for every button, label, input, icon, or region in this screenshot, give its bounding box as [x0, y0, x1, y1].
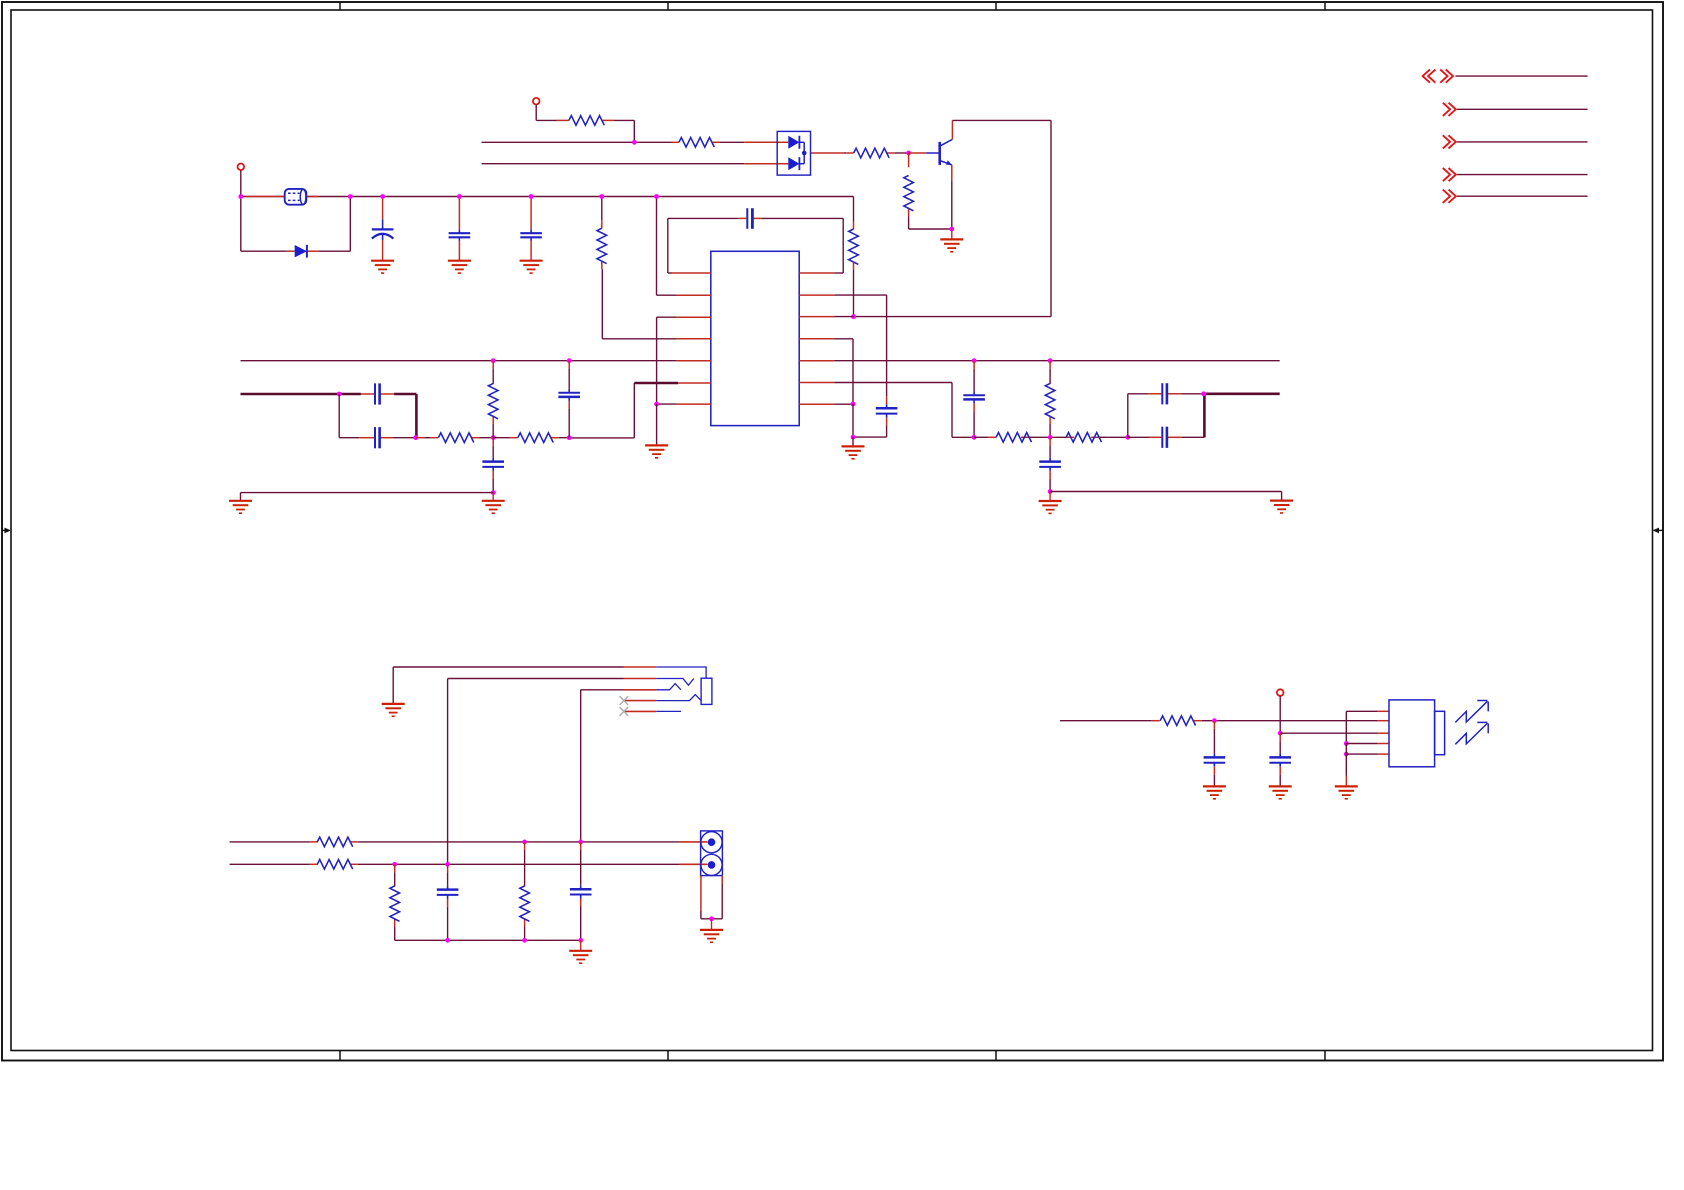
node bus A junction R16: [522, 840, 527, 845]
node bus B junction R15: [392, 862, 397, 867]
resistor R2: [679, 138, 714, 148]
ground jack sleeve: [382, 703, 405, 705]
wire bus B to connector: [680, 863, 708, 865]
node R10 bottom junction: [1048, 435, 1053, 440]
capacitor C4 leads: [739, 217, 747, 219]
node bottom bus junction 3: [578, 938, 583, 943]
resistor R8 leads: [416, 437, 425, 439]
capacitor C5 leads: [886, 396, 888, 404]
jack J1 contact 1: [656, 667, 706, 678]
resistor R15 leads: [394, 864, 396, 872]
node A junction: [851, 314, 856, 319]
node base junction: [906, 151, 911, 156]
wire parallel cap link right: [1127, 394, 1129, 438]
node rail junction 7: [654, 194, 659, 199]
resistor R9 leads: [493, 437, 510, 439]
op-amp U1 pin 1 lead: [672, 272, 711, 274]
resistor R4: [904, 175, 914, 210]
node rail junction 1: [238, 194, 243, 199]
node bottom bus junction 1: [445, 938, 450, 943]
capacitor C14 leads: [447, 864, 449, 872]
resistor R10: [1045, 383, 1055, 418]
capacitor C3: [520, 232, 542, 234]
ground headphone bottom: [580, 940, 582, 951]
fuse F1: [285, 189, 307, 205]
wire pin7 to ground junction: [657, 403, 677, 405]
jack J1 contact 4 switch: [656, 695, 701, 701]
transistor Q1: [926, 152, 939, 154]
border zone tick bottom 2: [667, 1051, 669, 1061]
port P2 output symbol: [1443, 103, 1456, 116]
wire pin13 to output network: [834, 382, 952, 384]
IR receiver U3 body: [1389, 700, 1435, 767]
diode D1: [295, 245, 307, 257]
wire pin2 to rail: [656, 197, 658, 296]
IR receiver U3 lens: [1435, 711, 1445, 754]
dual diode U2 common cathode link: [799, 141, 804, 143]
wire pin6 thick net: [634, 382, 678, 385]
wire T3 stem: [1279, 696, 1281, 733]
op-amp U1 pin 4 lead: [677, 338, 711, 340]
wire pin14 to ground junction: [834, 403, 853, 405]
ground below Q1 emitter: [951, 229, 953, 239]
node rail junction 4: [457, 194, 462, 199]
wire C1 branch: [382, 197, 384, 220]
node rail junction R10: [1048, 358, 1053, 363]
wire left ground bus: [241, 492, 494, 494]
port P5 output symbol: [1443, 190, 1456, 203]
resistor R12 leads: [1066, 436, 1074, 438]
capacitor C11 leads: [1148, 393, 1161, 395]
wire T1 to rail: [240, 170, 242, 196]
ground below right junction: [852, 437, 854, 446]
capacitor C17: [1269, 756, 1291, 759]
wire R4 to emitter node: [908, 217, 910, 230]
wire R3 to base node: [895, 152, 909, 154]
wire headphone bus B: [230, 863, 310, 865]
capacitor C17 leads: [1279, 733, 1281, 741]
op-amp U1 pin 2 lead: [677, 294, 711, 296]
node thick junction right: [1201, 391, 1206, 396]
resistor R11 leads: [988, 436, 996, 438]
resistor R1 leads: [557, 119, 569, 121]
wire port P5 net: [1457, 195, 1588, 197]
wire audio rail right: [834, 360, 1279, 362]
resistor R3: [854, 148, 889, 158]
wire Q1 emitter lead: [951, 165, 953, 180]
ground below C13: [1049, 492, 1051, 502]
node left network junction 2: [491, 435, 496, 440]
node IR gnd junction 2: [1344, 752, 1349, 757]
resistor R3 leads: [846, 152, 854, 154]
wire pin9 to C5: [834, 294, 886, 296]
capacitor C15: [570, 888, 592, 891]
capacitor C7: [374, 427, 376, 448]
wire pin3 to ground net: [657, 316, 677, 318]
node IR gnd junction 1: [1344, 741, 1349, 746]
op-amp U1 pin 7 lead: [677, 403, 711, 405]
op-amp U1 pin 3 lead: [677, 316, 711, 318]
connector J2 shield legs: [700, 876, 702, 911]
wire input line 1: [482, 141, 672, 143]
wire right ground link: [852, 404, 854, 437]
dual diode U2 diode A: [788, 136, 799, 149]
IR receiver U3 pin leads: [1377, 710, 1389, 712]
wire collector loop: [952, 119, 1051, 121]
resistor R17: [1160, 716, 1195, 726]
resistor R9: [518, 433, 553, 443]
port P1 bidirectional symbol: [1423, 70, 1453, 83]
ground below pin7: [656, 404, 658, 445]
no-connect X pin4: [620, 696, 629, 705]
op-amp U1 pin 6 lead: [678, 382, 711, 384]
resistor R13: [317, 837, 352, 847]
jack J1 pin 2 lead: [624, 678, 656, 680]
jack J1 contact 3 switch: [656, 684, 681, 690]
no-connect X pin5: [620, 707, 629, 716]
resistor R7: [488, 383, 498, 418]
node emitter junction: [949, 227, 954, 232]
border centre arrow left: [2, 529, 8, 531]
node rail junction 5: [529, 194, 534, 199]
jack J1 contact 2 switch: [656, 679, 694, 686]
resistor R5: [849, 229, 859, 264]
wire rail corner down to R5: [853, 197, 855, 222]
capacitor C13 leads: [1049, 437, 1051, 445]
node pin7 ground junction: [654, 402, 659, 407]
resistor R14 leads: [310, 863, 318, 865]
wire R5 to node A: [853, 262, 855, 270]
wire R1 to input line 1: [614, 119, 634, 121]
ground left bus end: [229, 500, 252, 502]
op-amp U1 pin 9 lead: [799, 294, 834, 296]
resistor R16 leads: [524, 842, 526, 850]
wire port P2 net: [1457, 108, 1588, 110]
wire IR pin5 link: [1346, 753, 1377, 755]
port P4 output symbol: [1443, 168, 1456, 181]
resistor R10 leads: [1049, 361, 1051, 369]
node rail junction 2: [348, 194, 353, 199]
wire base lead: [909, 152, 927, 154]
border zone tick top 1: [339, 2, 341, 10]
wire IR power line: [1280, 732, 1377, 734]
wire pin4 to R6: [602, 338, 676, 340]
resistor R4 pulldown leads: [908, 153, 910, 167]
capacitor C16 leads: [1213, 721, 1215, 729]
op-amp U1 pin 12 lead: [799, 360, 834, 362]
capacitor C16: [1204, 756, 1226, 759]
node left network junction 3: [567, 435, 572, 440]
capacitor C6 leads: [361, 393, 374, 395]
wire C2 branch: [458, 197, 460, 230]
ground right bus end: [1270, 500, 1293, 502]
node rail junction 6: [599, 194, 604, 199]
wire right speaker thick: [1203, 394, 1206, 438]
wire input line 2: [482, 163, 745, 165]
wire pin10 to node A: [834, 316, 853, 318]
node rail junction R7: [491, 358, 496, 363]
wire headphone bottom bus: [395, 939, 581, 941]
capacitor C5: [876, 407, 898, 410]
capacitor C11: [1161, 383, 1163, 404]
wire right network bus: [974, 436, 988, 438]
wire diode branch: [240, 197, 242, 252]
jack J1 pin 1 lead: [624, 666, 656, 668]
jack J1 body: [701, 678, 712, 704]
terminal T2 mute input: [533, 98, 540, 105]
wire audio rail left: [241, 360, 677, 362]
capacitor C14: [437, 888, 459, 891]
dual diode U2 box: [777, 131, 810, 175]
wire headphone bus A: [230, 841, 310, 843]
resistor R14: [317, 860, 352, 870]
node bus A junction C15: [578, 840, 583, 845]
node IR signal junction: [1212, 718, 1217, 723]
fuse F1 leads: [246, 196, 285, 198]
wire jack tip branch: [448, 678, 624, 680]
ground below C9: [492, 493, 494, 501]
wire Q1 collector lead: [951, 120, 953, 139]
wire port P1 net: [1455, 75, 1587, 77]
capacitor C4: [746, 208, 748, 229]
capacitor C6: [374, 383, 376, 404]
connector J2 box: [701, 831, 723, 876]
op-amp U1 pin 8 lead: [799, 272, 834, 274]
wire port P3 net: [1457, 141, 1588, 143]
border zone tick top 4: [1324, 2, 1326, 10]
wire jack ring branch: [581, 689, 624, 691]
resistor R13 leads: [310, 841, 318, 843]
ground connector: [711, 919, 713, 930]
ground below C1: [371, 260, 394, 262]
wire T2 stem: [535, 105, 537, 121]
node right ground junction 2: [851, 435, 856, 440]
capacitor C8 leads: [568, 361, 570, 369]
resistor R17 leads: [1152, 720, 1160, 722]
connector J2 pin 2: [701, 854, 722, 875]
resistor R1: [569, 116, 604, 126]
capacitor C2: [449, 232, 471, 234]
resistor R2 leads: [672, 141, 679, 143]
node rail junction C10: [972, 358, 977, 363]
node right ground bus junction: [1048, 489, 1053, 494]
border zone tick bottom 4: [1324, 1051, 1326, 1061]
resistor R12: [1066, 433, 1101, 443]
node left ground bus junction: [491, 490, 496, 495]
border zone tick top 3: [995, 2, 997, 10]
capacitor C12 leads: [1149, 436, 1161, 438]
border zone tick top 2: [667, 2, 669, 10]
jack J1 pin 4 lead: [624, 700, 656, 702]
wire feedback loop: [668, 217, 739, 219]
capacitor C12: [1161, 427, 1163, 448]
node input junction: [632, 140, 637, 145]
capacitor C15 leads: [580, 842, 582, 850]
capacitor C10 leads: [973, 361, 975, 369]
wire pin11 down: [834, 338, 853, 340]
border zone tick bottom 3: [995, 1051, 997, 1061]
op-amp U1 pin 10 lead: [799, 316, 834, 318]
resistor R15: [390, 886, 400, 921]
capacitor C13: [1039, 460, 1061, 463]
node bottom bus junction 2: [522, 938, 527, 943]
resistor R8: [438, 433, 473, 443]
ground below C2: [448, 260, 471, 262]
capacitor C8: [558, 392, 580, 394]
jack J1 pin 5 lead: [624, 710, 656, 712]
ground IR receiver: [1345, 776, 1347, 787]
wire port P4 net: [1457, 174, 1588, 176]
ground below C3: [520, 260, 543, 262]
node C10 bottom junction: [972, 435, 977, 440]
IR arrow 1: [1455, 701, 1487, 722]
ground below C16: [1203, 785, 1226, 787]
op-amp U1 pin 11 lead: [799, 338, 834, 340]
IR arrow 2: [1455, 723, 1487, 744]
resistor R16: [520, 886, 530, 921]
connector J2 pin 1: [701, 832, 722, 853]
wire IR signal: [1060, 720, 1152, 722]
node left network junction 1: [413, 435, 418, 440]
capacitor C7 leads: [359, 437, 374, 439]
op-amp U1 pin 5 lead: [677, 360, 711, 362]
node rail junction C8: [567, 358, 572, 363]
diode D1 leads: [287, 250, 295, 252]
wire right ground bus: [1050, 491, 1282, 493]
dual diode U2 diode B: [788, 157, 799, 170]
port P3 output symbol: [1443, 135, 1456, 148]
capacitor C9 leads: [492, 438, 494, 446]
wire IR pin1 loop: [1346, 710, 1377, 712]
wire left speaker thick: [241, 393, 361, 396]
wire jack sleeve to ground: [393, 666, 624, 668]
node right ground junction 1: [851, 402, 856, 407]
dual diode U2 pin leads: [744, 141, 788, 143]
wire IR pin4 link: [1346, 743, 1377, 745]
resistor R7 leads: [492, 361, 494, 369]
capacitor C1 electrolytic: [372, 228, 394, 230]
wire C3 branch: [530, 197, 532, 230]
ground below C17: [1269, 785, 1292, 787]
node right network junction: [1125, 435, 1130, 440]
resistor R11: [996, 433, 1031, 443]
resistor R6 leads: [601, 197, 603, 221]
wire bus A to connector: [680, 841, 708, 843]
terminal T3 IR power: [1277, 689, 1284, 696]
node connector ground junction: [709, 916, 714, 921]
wire U2 to R3: [844, 152, 846, 154]
jack J1 contact 5: [656, 710, 681, 712]
border zone tick bottom 1: [339, 1051, 341, 1061]
capacitor C9: [482, 460, 504, 463]
wire parallel cap link: [338, 394, 340, 438]
node IR power junction: [1278, 731, 1283, 736]
op-amp U1 pin 14 lead: [799, 403, 834, 405]
op-amp U1 pin 13 lead: [799, 382, 834, 384]
terminal T1 power input: [238, 164, 245, 171]
capacitor C10: [963, 394, 985, 396]
node rail junction 3: [380, 194, 385, 199]
node bus B junction C14: [445, 862, 450, 867]
node thick junction: [337, 392, 342, 397]
border centre arrow right: [1657, 529, 1663, 531]
op-amp U1 box: [711, 251, 799, 425]
resistor R6: [597, 228, 607, 263]
jack J1 pin 3 lead: [624, 689, 656, 691]
wire VCC rail: [241, 196, 854, 198]
